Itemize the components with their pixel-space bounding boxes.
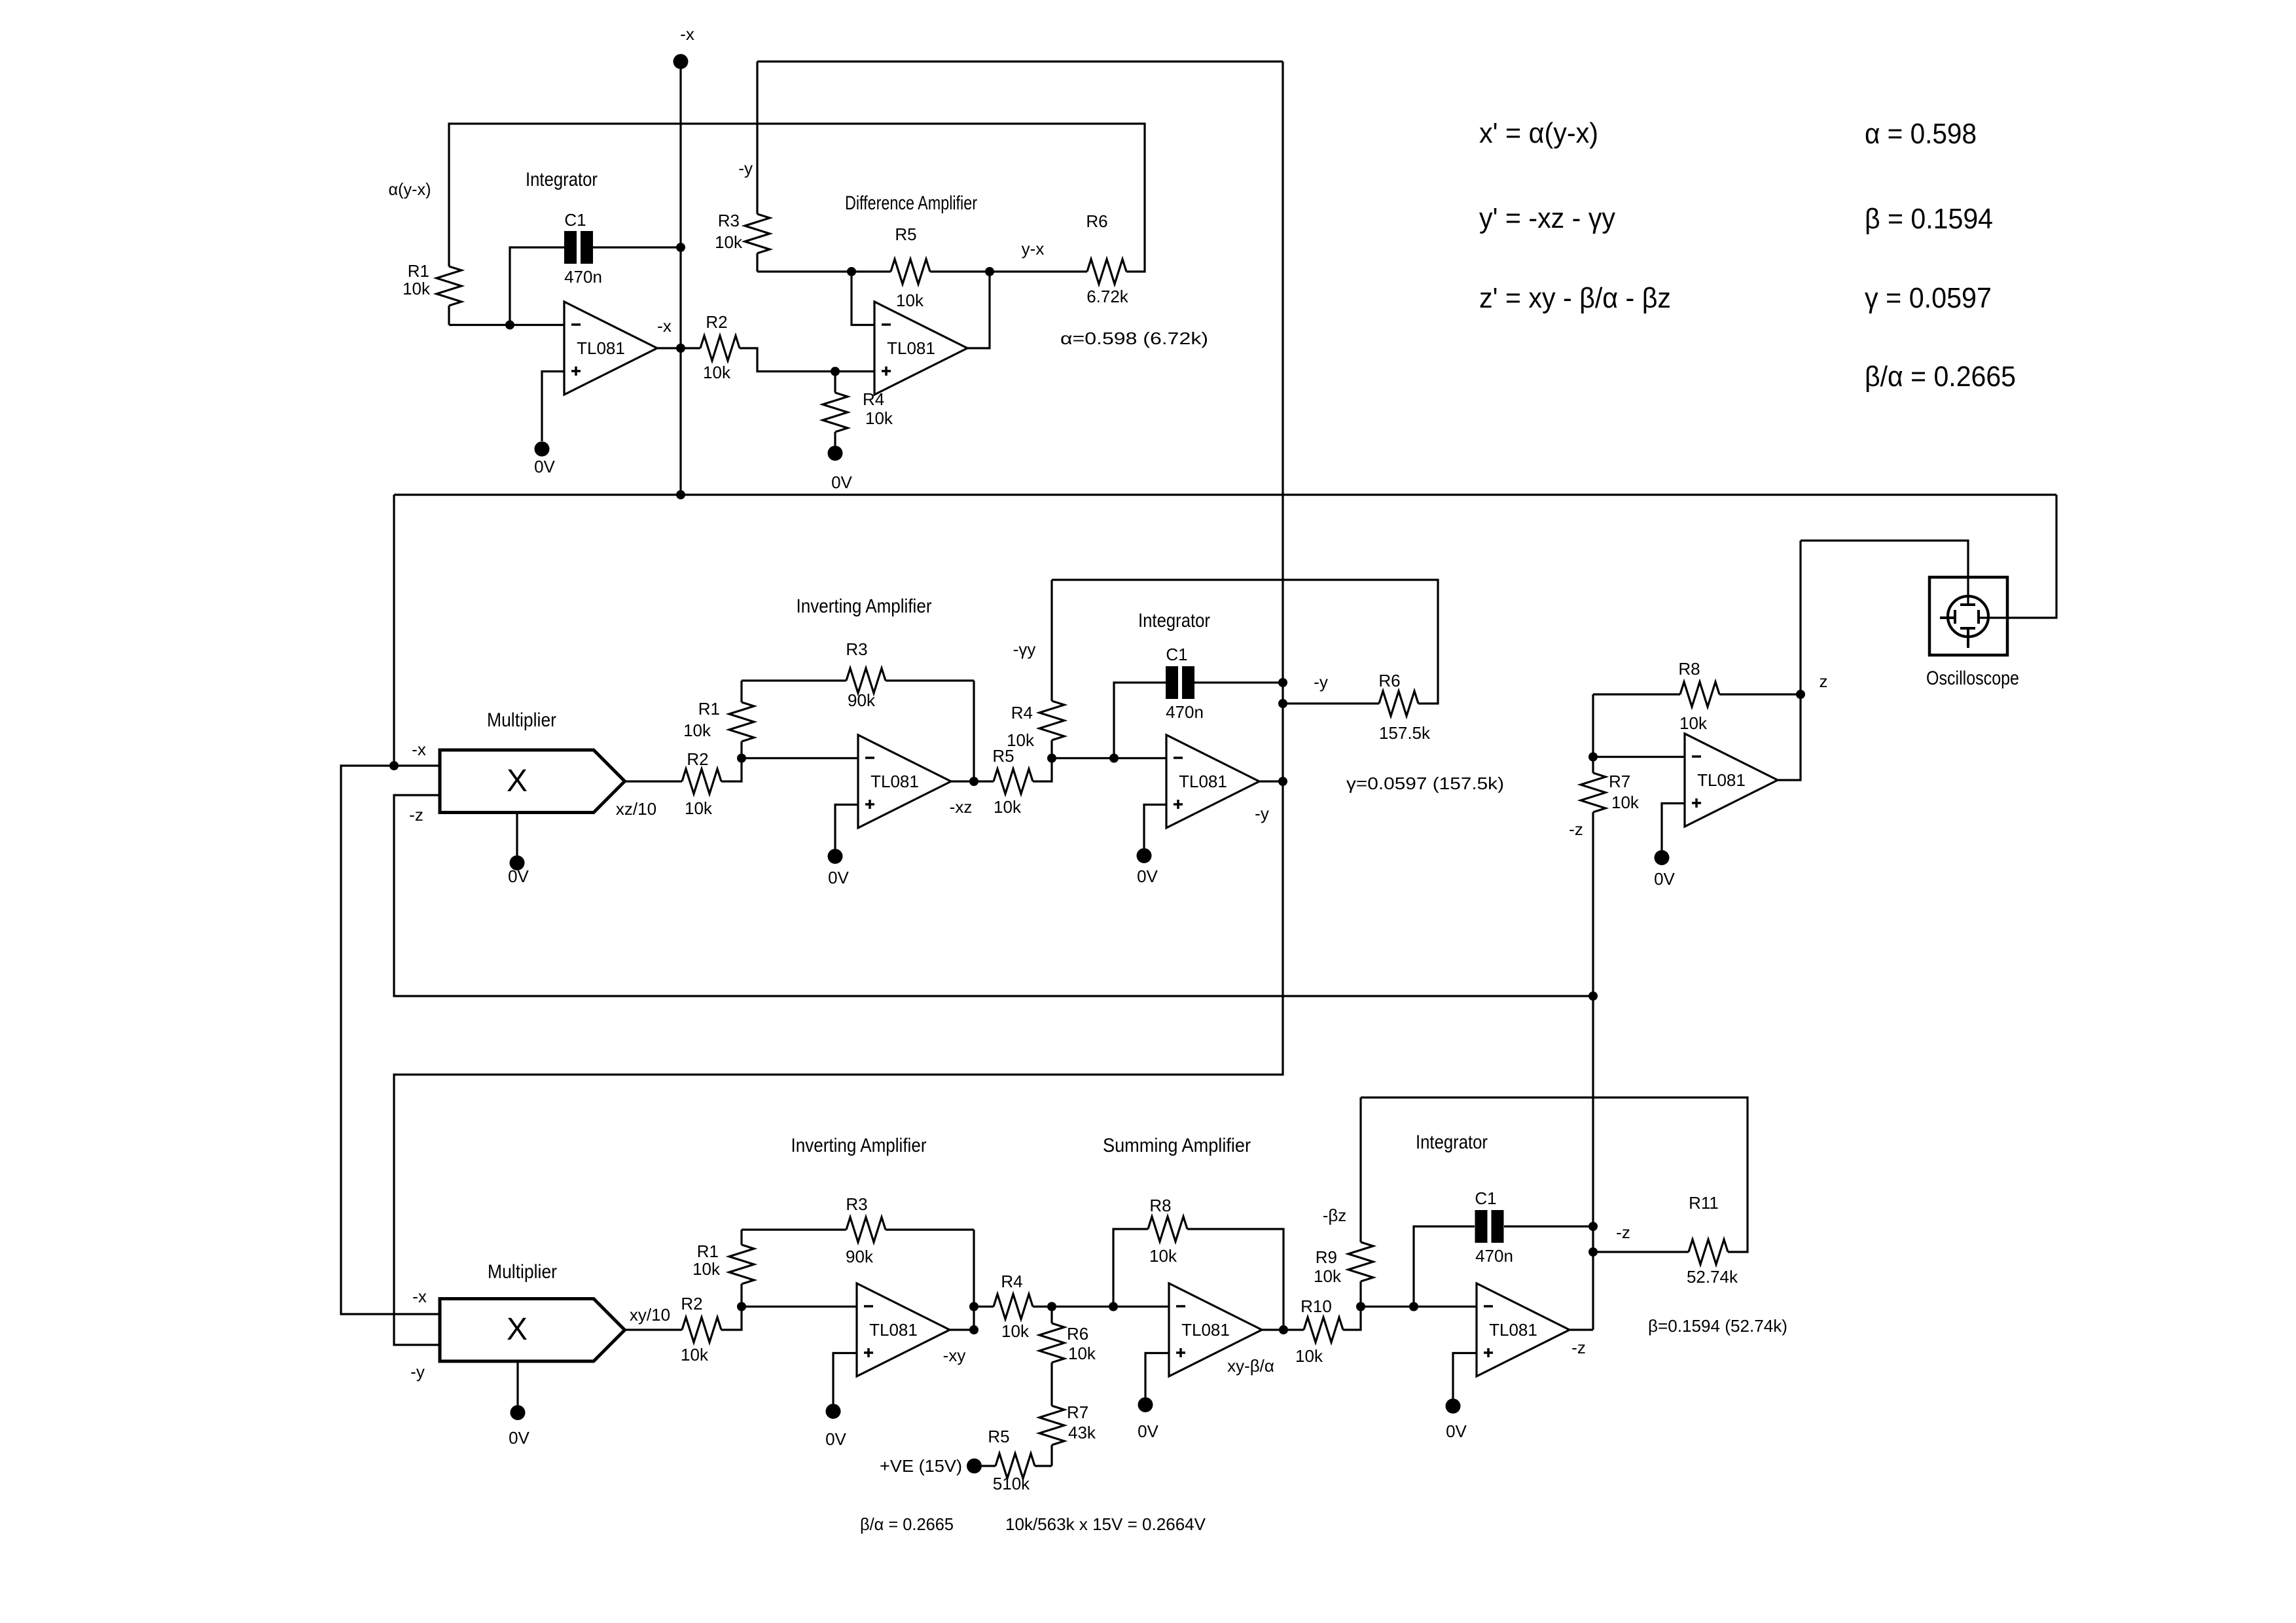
terminal 0V (multiplier 2): [511, 1405, 526, 1420]
svg-text:43k: 43k: [1068, 1423, 1096, 1442]
svg-text:0V: 0V: [1137, 866, 1158, 886]
svg-text:-x: -x: [412, 1287, 427, 1306]
wire R8 left vertical: [1592, 694, 1594, 757]
resistor R4 (bottom summing input 10k): [994, 1294, 1033, 1319]
svg-text:10k: 10k: [1679, 713, 1708, 733]
wire -x bus drop to multiplier: [393, 495, 395, 766]
svg-text:C1: C1: [1475, 1188, 1496, 1208]
resistor R10 (bottom 10k): [1304, 1317, 1343, 1342]
wire op3 output: [951, 780, 994, 782]
svg-text:0V: 0V: [825, 1429, 846, 1449]
wire -y top line: [757, 60, 1283, 62]
terminal 0V (op3): [828, 849, 843, 864]
svg-text:10k: 10k: [1295, 1346, 1323, 1366]
wire R3 to R5 junction: [757, 270, 891, 272]
terminal +VE 15V: [967, 1459, 982, 1474]
svg-text:6.72k: 6.72k: [1086, 287, 1129, 306]
node junction -x / op1 output: [676, 344, 685, 353]
svg-text:β = 0.1594: β = 0.1594: [1865, 203, 1993, 235]
wire R3 feedback (middle): [742, 679, 846, 681]
svg-text:-y: -y: [410, 1362, 425, 1382]
resistor R5 (middle row 10k): [994, 769, 1033, 794]
wire op1 output to R2: [657, 347, 700, 349]
svg-text:Integrator: Integrator: [526, 169, 598, 190]
svg-text:Multiplier: Multiplier: [488, 1261, 557, 1283]
svg-text:TL081: TL081: [1489, 1320, 1537, 1340]
wire inverting input line (bottom inv amp): [742, 1306, 857, 1308]
op-amp U4 TL081 (middle integrator): [1166, 735, 1259, 828]
svg-text:10k: 10k: [994, 797, 1022, 817]
op-amp U5 TL081 (z inverter): [1685, 734, 1778, 827]
wire R10 to integrator node (bottom): [1343, 1307, 1361, 1330]
node junction z / R8: [1796, 690, 1805, 699]
svg-text:TL081: TL081: [577, 338, 625, 358]
svg-text:TL081: TL081: [1697, 770, 1746, 790]
wire alpha(y-x) feedback top: [448, 306, 450, 325]
wire integrator minus line (middle): [1052, 757, 1166, 759]
resistor R8 (z inverter 10k): [1680, 682, 1719, 707]
svg-text:R6: R6: [1067, 1324, 1088, 1344]
svg-text:R7: R7: [1609, 772, 1630, 791]
resistor R3 (middle row 90k): [846, 668, 886, 693]
wire op1 non-inverting 0V stub: [542, 372, 564, 442]
node junction R4 tap (bottom): [969, 1302, 978, 1311]
node junction inverting node (middle inv amp): [737, 754, 746, 763]
svg-text:90k: 90k: [846, 1247, 874, 1266]
svg-text:-z: -z: [1616, 1222, 1630, 1242]
wire C1 branch: [510, 247, 564, 325]
wire -x bus to oscilloscope: [1979, 495, 2056, 618]
svg-text:x' = α(y-x): x' = α(y-x): [1479, 117, 1598, 149]
resistor R4 (diff amp 10k): [834, 372, 836, 393]
svg-text:R2: R2: [681, 1294, 702, 1313]
node junction inverting node (bottom inv amp): [737, 1302, 746, 1311]
resistor R6 (bottom divider 10k): [1050, 1307, 1052, 1324]
svg-text:R5: R5: [988, 1427, 1009, 1446]
svg-text:10k: 10k: [1001, 1321, 1030, 1341]
svg-text:10k: 10k: [1007, 730, 1035, 750]
svg-text:TL081: TL081: [1181, 1320, 1230, 1340]
svg-text:R9: R9: [1316, 1247, 1337, 1267]
wire -beta-z feedback loop: [1361, 1097, 1748, 1252]
wire op8 non-inverting 0V stub: [1453, 1353, 1477, 1399]
wire R5 to y-x junction: [930, 270, 990, 272]
terminal 0V (op1): [535, 442, 550, 457]
wire op5 output to z: [1778, 541, 1801, 780]
svg-text:0V: 0V: [1138, 1421, 1158, 1441]
capacitor C1 (top integrator 470n): [564, 231, 577, 264]
oscilloscope right plate: [1977, 610, 1980, 624]
svg-text:-γy: -γy: [1013, 639, 1036, 659]
svg-text:52.74k: 52.74k: [1687, 1267, 1738, 1287]
wire op4 output: [1259, 780, 1283, 782]
svg-text:TL081: TL081: [887, 338, 935, 358]
wire R2 to diff-amp non-inverting input: [740, 348, 874, 372]
wire integrator inverting input line: [449, 324, 564, 326]
wire multiplier 2 output: [625, 1329, 683, 1330]
wire C1 branch (bottom): [1414, 1226, 1475, 1307]
svg-text:R3: R3: [846, 1194, 867, 1214]
resistor R2 (middle row 10k): [682, 769, 721, 794]
multiplier M2 (xy): [440, 1299, 625, 1362]
svg-text:R5: R5: [895, 224, 916, 244]
wire integrator minus line (bottom): [1361, 1306, 1477, 1308]
svg-text:R11: R11: [1689, 1193, 1719, 1213]
svg-text:0V: 0V: [508, 866, 529, 886]
svg-text:γ=0.0597 (157.5k): γ=0.0597 (157.5k): [1346, 774, 1504, 793]
svg-text:Multiplier: Multiplier: [487, 709, 556, 731]
node junction R8 tap (bottom): [1109, 1302, 1118, 1311]
capacitor C1 (bottom integrator 470n): [1475, 1210, 1488, 1243]
wire op7 output: [1262, 1329, 1304, 1330]
svg-text:β/α = 0.2665: β/α = 0.2665: [1865, 361, 2016, 393]
svg-text:γ = 0.0597: γ = 0.0597: [1865, 282, 1992, 314]
wire op8 output -z: [1570, 1329, 1593, 1330]
wire R4 to summing node: [1033, 1306, 1052, 1308]
svg-text:0V: 0V: [1446, 1421, 1467, 1441]
terminal -x (top): [673, 54, 689, 69]
wire R11 to -z node: [1593, 1251, 1689, 1253]
svg-text:10k: 10k: [1611, 793, 1640, 812]
op-amp U3 TL081 (middle inverting amplifier): [858, 735, 951, 828]
resistor R8 (summing feedback 10k): [1148, 1217, 1187, 1241]
resistor R1 (middle row 10k): [740, 741, 742, 758]
svg-text:TL081: TL081: [869, 1320, 918, 1340]
wire -y vertical long: [394, 62, 1283, 1345]
wire inverting input line (middle inv amp): [742, 757, 858, 759]
wire R6 to -y node: [1283, 702, 1379, 704]
terminal 0V (multiplier 1): [510, 855, 525, 870]
resistor R5 (diff amp feedback 10k): [891, 259, 930, 284]
svg-text:0V: 0V: [1654, 869, 1675, 889]
node junction -x / bus: [676, 490, 685, 499]
node junction C1 branch (middle): [1109, 754, 1119, 763]
svg-text:TL081: TL081: [870, 772, 919, 791]
resistor R3 (bottom row 90k): [846, 1217, 886, 1242]
resistor R5 (bottom 510k): [1035, 1465, 1052, 1467]
svg-text:z: z: [1820, 671, 1828, 691]
op-amp U8 TL081 (bottom integrator): [1477, 1283, 1570, 1376]
svg-text:Summing Amplifier: Summing Amplifier: [1103, 1135, 1251, 1156]
svg-text:R3: R3: [846, 639, 867, 659]
svg-text:470n: 470n: [1166, 702, 1204, 722]
svg-text:470n: 470n: [564, 267, 602, 287]
svg-text:10k: 10k: [1068, 1344, 1096, 1363]
wire -x down to bottom multiplier: [341, 766, 440, 1314]
node junction y-x: [985, 267, 994, 276]
svg-text:10k: 10k: [1314, 1266, 1342, 1286]
svg-text:β=0.1594 (52.74k): β=0.1594 (52.74k): [1648, 1316, 1787, 1336]
wire multiplier 1 0V stub: [516, 813, 518, 856]
op-amp U2 TL081 (difference amplifier): [874, 302, 967, 395]
svg-text:10k: 10k: [683, 721, 711, 740]
svg-text:R1: R1: [408, 261, 429, 281]
wire R5 to integrator node: [1033, 758, 1052, 782]
node junction summing node: [1047, 1302, 1056, 1311]
svg-text:Difference Amplifier: Difference Amplifier: [845, 192, 977, 214]
node junction integrator node (bottom): [1356, 1302, 1365, 1311]
svg-text:-y: -y: [738, 158, 753, 178]
wire diff-amp output to feedback: [967, 272, 990, 348]
svg-text:0V: 0V: [534, 457, 555, 476]
node junction -z / R7 branch: [1588, 991, 1598, 1001]
svg-text:R2: R2: [706, 312, 727, 332]
multiplier M1 (xz): [440, 750, 625, 813]
resistor R9 (beta feedback 10k): [1359, 1281, 1361, 1307]
svg-text:90k: 90k: [848, 690, 876, 710]
wire R7 to R5: [1050, 1445, 1052, 1466]
svg-text:-y: -y: [1314, 672, 1328, 692]
svg-text:Oscilloscope: Oscilloscope: [1926, 668, 2019, 689]
wire -x bus (middle): [394, 493, 2056, 495]
resistor R1 (top integrator input 10k): [437, 266, 461, 306]
svg-text:R8: R8: [1149, 1196, 1171, 1215]
node junction -z / C1: [1588, 1222, 1598, 1231]
svg-text:0V: 0V: [509, 1428, 529, 1448]
svg-text:10k: 10k: [715, 232, 743, 252]
svg-text:-x: -x: [412, 740, 426, 759]
svg-text:10k: 10k: [681, 1345, 709, 1364]
oscilloscope top plate: [1960, 603, 1975, 606]
node junction op6 output: [969, 1325, 978, 1334]
resistor R6 (gamma feedback 157.5k): [1379, 691, 1418, 716]
svg-text:Inverting Amplifier: Inverting Amplifier: [791, 1135, 927, 1156]
terminal 0V (op6): [826, 1404, 841, 1419]
resistor R1 (bottom row 10k): [740, 1284, 742, 1307]
wire op6 non-inverting 0V stub: [833, 1353, 857, 1404]
resistor R2 (top 10k): [700, 336, 740, 361]
wire R2 to inverting node (bottom): [721, 1307, 742, 1330]
terminal 0V (diff amp R4): [828, 446, 843, 461]
node junction op4 output -y: [1278, 777, 1287, 786]
svg-text:X: X: [507, 1312, 528, 1347]
wire summing minus line: [1052, 1306, 1169, 1308]
wire R6 to R7: [1050, 1363, 1052, 1406]
svg-text:α = 0.598: α = 0.598: [1865, 118, 1977, 150]
oscilloscope bottom plate: [1960, 627, 1975, 630]
wire R3 top lead: [756, 62, 758, 214]
wire op4 non-inverting 0V stub: [1144, 805, 1166, 849]
wire multiplier 1 output: [625, 780, 683, 782]
svg-text:R6: R6: [1086, 211, 1107, 231]
node junction z-inv inverting node: [1588, 753, 1598, 762]
svg-text:-x: -x: [657, 316, 672, 336]
resistor R4 (middle row 10k): [1050, 740, 1052, 758]
resistor R6 (alpha feedback 6.72k): [990, 270, 1087, 272]
svg-text:R6: R6: [1378, 671, 1400, 690]
svg-text:10k: 10k: [1149, 1246, 1177, 1266]
svg-text:10k: 10k: [865, 408, 893, 428]
svg-text:β/α = 0.2665: β/α = 0.2665: [860, 1514, 954, 1534]
node junction integrator inverting input: [505, 321, 514, 330]
wire R3 feedback (bottom): [742, 1228, 846, 1230]
svg-text:xy/10: xy/10: [630, 1305, 670, 1325]
op-amp U7 TL081 (summing amplifier): [1169, 1283, 1262, 1376]
node junction integrator inverting node (middle): [1047, 754, 1056, 763]
svg-text:510k: 510k: [993, 1474, 1030, 1493]
terminal 0V (op8): [1446, 1399, 1461, 1414]
op-amp U6 TL081 (bottom inverting amplifier): [857, 1283, 950, 1376]
oscilloscope left plate: [1954, 610, 1956, 624]
svg-text:-z: -z: [409, 805, 423, 825]
node junction R4 tap: [831, 367, 840, 376]
svg-text:R7: R7: [1067, 1402, 1088, 1422]
terminal 0V (op5): [1655, 850, 1670, 865]
wire -z into multiplier 1: [394, 795, 1593, 996]
node junction -y / C1: [1278, 678, 1287, 687]
svg-text:R1: R1: [697, 1241, 719, 1261]
svg-text:470n: 470n: [1475, 1246, 1513, 1266]
wire op3 non-inverting 0V stub: [835, 805, 858, 849]
svg-text:α(y-x): α(y-x): [389, 179, 431, 199]
svg-text:10k: 10k: [703, 363, 731, 382]
svg-text:-xz: -xz: [950, 797, 973, 817]
svg-text:Inverting Amplifier: Inverting Amplifier: [797, 596, 932, 617]
svg-text:-x: -x: [680, 24, 694, 44]
node junction -y / R6: [1278, 699, 1287, 708]
svg-text:-xy: -xy: [943, 1346, 966, 1365]
terminal 0V (op7): [1138, 1397, 1153, 1412]
svg-text:R3: R3: [718, 211, 740, 230]
svg-text:10k: 10k: [685, 798, 713, 818]
svg-text:R1: R1: [698, 699, 720, 719]
svg-text:y-x: y-x: [1022, 239, 1045, 259]
svg-text:y' = -xz - γy: y' = -xz - γy: [1479, 202, 1615, 234]
wire -x vertical: [679, 62, 681, 495]
wire R8 feedback loop (bottom): [1113, 1229, 1148, 1307]
svg-text:R10: R10: [1300, 1296, 1332, 1316]
wire op5 non-inverting 0V stub: [1662, 804, 1685, 851]
svg-text:R8: R8: [1678, 659, 1700, 679]
resistor R7 (z inverter 10k): [1592, 757, 1594, 774]
wire op7 non-inverting 0V stub: [1145, 1353, 1169, 1398]
node junction op3 output: [969, 777, 978, 786]
wire R2 to inverting node (middle): [721, 758, 742, 782]
node junction C1 branch (bottom): [1409, 1302, 1418, 1311]
svg-text:-y: -y: [1255, 804, 1269, 823]
wire -x into multiplier 1: [394, 764, 440, 766]
wire z to oscilloscope: [1801, 541, 1968, 605]
op-amp U1 TL081 (top integrator): [564, 302, 657, 395]
capacitor C1 (middle integrator 470n): [1166, 666, 1178, 699]
svg-text:10k/563k x 15V = 0.2664V: 10k/563k x 15V = 0.2664V: [1005, 1514, 1206, 1534]
svg-text:z' = xy - β/α - βz: z' = xy - β/α - βz: [1479, 282, 1671, 314]
svg-text:Integrator: Integrator: [1416, 1132, 1488, 1153]
terminal 0V (op4): [1137, 848, 1152, 863]
svg-text:-z: -z: [1569, 819, 1583, 839]
oscilloscope box: [1929, 577, 2007, 655]
svg-text:R2: R2: [687, 749, 708, 769]
node junction -z / R11: [1588, 1247, 1598, 1257]
node junction diff-amp inverting: [847, 267, 856, 276]
resistor R2 (bottom row 10k): [682, 1317, 721, 1342]
svg-text:TL081: TL081: [1179, 772, 1227, 791]
svg-text:R4: R4: [1011, 703, 1033, 722]
svg-text:C1: C1: [564, 210, 586, 230]
svg-text:10k: 10k: [692, 1259, 721, 1279]
svg-text:-βz: -βz: [1323, 1205, 1347, 1225]
oscilloscope crt circle: [1948, 596, 1988, 637]
svg-text:R4: R4: [1001, 1272, 1022, 1291]
node junction op7 output: [1279, 1325, 1288, 1334]
svg-text:10k: 10k: [896, 291, 924, 310]
svg-text:-z: -z: [1571, 1338, 1586, 1357]
svg-text:10k: 10k: [403, 279, 431, 298]
svg-text:157.5k: 157.5k: [1379, 723, 1431, 743]
svg-text:0V: 0V: [831, 473, 852, 492]
wire R4 line (bottom): [974, 1306, 994, 1308]
svg-text:0V: 0V: [828, 868, 849, 887]
wire -gamma-y feedback loop: [1052, 580, 1438, 704]
node junction -x branch (multiplier 1): [389, 761, 399, 770]
svg-text:Integrator: Integrator: [1138, 610, 1210, 632]
svg-text:xy-β/α: xy-β/α: [1227, 1356, 1274, 1376]
resistor R7 (bottom divider 43k): [1039, 1406, 1064, 1445]
svg-text:xz/10: xz/10: [616, 799, 656, 819]
resistor R11 (beta feedback 52.74k): [1689, 1240, 1728, 1264]
node junction -x / C1: [676, 243, 685, 252]
svg-text:+VE (15V): +VE (15V): [880, 1456, 962, 1476]
svg-text:X: X: [507, 764, 528, 798]
wire multiplier 2 0V stub: [516, 1361, 518, 1405]
resistor R3 (diff amp 10k): [745, 214, 770, 253]
svg-text:α=0.598 (6.72k): α=0.598 (6.72k): [1060, 329, 1208, 348]
svg-text:C1: C1: [1166, 645, 1187, 664]
wire diff-amp inverting input stub: [852, 272, 874, 325]
wire C1 branch (middle): [1114, 683, 1166, 758]
wire op6 output: [950, 1329, 974, 1330]
wire R8 line (z inverter): [1593, 693, 1680, 695]
wire z-inv minus line: [1593, 756, 1685, 758]
